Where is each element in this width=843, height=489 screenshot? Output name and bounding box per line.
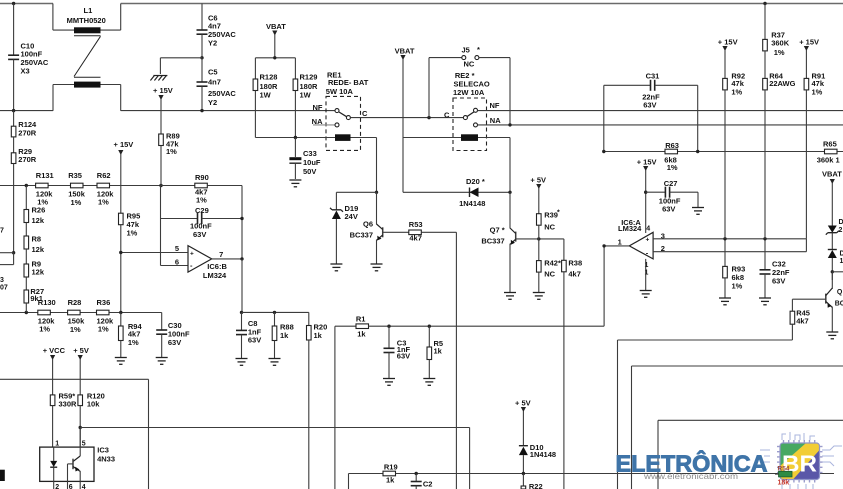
svg-text:+ 15V: + 15V	[153, 86, 173, 95]
svg-text:R42*: R42*	[544, 258, 561, 267]
svg-text:R26: R26	[32, 206, 46, 215]
capacitor C3 1nF 63V	[388, 326, 390, 348]
svg-text:NC: NC	[544, 223, 555, 232]
svg-text:+ 5V: + 5V	[530, 176, 546, 185]
node - output junction	[240, 257, 243, 260]
svg-text:50V: 50V	[303, 167, 316, 176]
svg-text:R128: R128	[260, 73, 278, 82]
ground - IC6:A pin11	[640, 290, 652, 292]
svg-text:1N4148: 1N4148	[530, 450, 556, 459]
resistor R92 47k 1%	[723, 78, 728, 90]
svg-text:270R: 270R	[18, 128, 37, 137]
svg-text:NF: NF	[490, 101, 500, 110]
svg-text:R129: R129	[300, 73, 318, 82]
svg-text:J5: J5	[462, 45, 470, 54]
wire - NF line right	[478, 110, 843, 112]
node - C32 top junction	[763, 237, 766, 240]
svg-text:1%: 1%	[731, 88, 742, 97]
resistor R9 12k	[25, 249, 27, 264]
diode D10 1N4148	[519, 445, 528, 447]
wire - C8 node to R20	[242, 311, 309, 313]
capacitor C27 100nF 63V	[646, 191, 666, 193]
svg-text:+ 5V: + 5V	[515, 398, 531, 407]
optocoupler transistor	[79, 428, 81, 457]
wire - R63 feedback line	[604, 151, 843, 153]
wire - main NF line left	[0, 110, 53, 112]
relay RE2 NA contact	[474, 123, 478, 127]
ground - under C3	[383, 378, 395, 380]
wire - R19 line vertical	[348, 474, 350, 489]
ground - under right transistor	[826, 331, 838, 333]
capacitor C32 22nF 63V	[764, 239, 766, 270]
svg-text:+ VCC: + VCC	[43, 346, 66, 355]
svg-text:C27: C27	[664, 179, 678, 188]
svg-text:1: 1	[840, 258, 843, 265]
ground - under D19	[330, 263, 342, 265]
logo chip pins	[777, 440, 823, 483]
svg-text:1%: 1%	[128, 338, 139, 347]
wire - IC6:A output pin1	[604, 245, 629, 247]
svg-text:1N4148: 1N4148	[459, 199, 485, 208]
svg-text:5: 5	[175, 244, 179, 253]
wire - D19 top wire	[336, 191, 376, 193]
diode D19 zener 24V	[335, 192, 337, 210]
node - C27 junction	[644, 191, 647, 194]
svg-text:1%: 1%	[127, 229, 138, 238]
capacitor C8 1nF 63V	[241, 312, 243, 330]
resistor R89 47k 1%	[159, 134, 164, 146]
svg-text:3: 3	[0, 277, 4, 284]
svg-text:C: C	[444, 110, 450, 119]
svg-text:+ 15V: + 15V	[637, 157, 657, 166]
svg-text:VBAT: VBAT	[395, 46, 415, 55]
svg-text:+ 15V: + 15V	[718, 38, 738, 47]
ground - under C8	[236, 358, 248, 360]
resistor R5 1k	[428, 326, 430, 347]
svg-text:63V: 63V	[397, 352, 410, 361]
resistor R93 6k8 1%	[724, 239, 726, 267]
node - R89/R90 junction	[159, 184, 162, 187]
resistor R27 9k1	[25, 277, 27, 290]
svg-text:C: C	[362, 109, 368, 118]
diode D2x 1N4148 (cut at edge)	[828, 249, 837, 251]
wire - IC6:B output pin7	[212, 258, 242, 260]
svg-text:1k: 1k	[386, 476, 395, 485]
wire - R20 bottom long vertical	[308, 340, 310, 489]
svg-text:4n7: 4n7	[208, 78, 221, 87]
wire - Q6 base to R53	[383, 231, 409, 233]
node - junction C10 top	[12, 2, 15, 5]
svg-text:1k: 1k	[357, 329, 366, 338]
wire - Q7 base wire	[516, 238, 564, 240]
svg-text:2: 2	[55, 484, 59, 489]
svg-text:1%: 1%	[812, 88, 823, 97]
node - C2 junction	[415, 472, 418, 475]
resistor R20 1k	[308, 312, 310, 325]
wire - pin2 input	[653, 251, 806, 253]
relay RE2 NF contact	[474, 108, 478, 112]
wire - VBAT to RE2 coil left	[402, 138, 404, 193]
resistor R19 1k	[349, 473, 384, 475]
resistor R28 150k 1%	[68, 310, 81, 315]
wire - top AC line left segment	[0, 3, 53, 5]
svg-text:+: +	[646, 236, 650, 243]
svg-text:24V: 24V	[345, 212, 358, 221]
ground - under Q7	[504, 292, 516, 294]
svg-text:1: 1	[618, 237, 622, 246]
resistor R131 120k 1%	[36, 183, 49, 188]
svg-text:1W: 1W	[300, 91, 312, 100]
svg-text:1: 1	[645, 270, 649, 277]
node - R129/coil junction	[294, 136, 297, 139]
svg-text:10k: 10k	[87, 399, 100, 408]
node - R5 junction	[428, 325, 431, 328]
svg-text:7: 7	[0, 228, 4, 235]
svg-text:R53: R53	[409, 220, 423, 229]
resistor R90 4k7 1% feedback	[161, 185, 195, 187]
svg-text:+ 15V: + 15V	[799, 38, 819, 47]
svg-text:R22: R22	[529, 482, 543, 489]
svg-text:4k7: 4k7	[409, 234, 422, 243]
wire - R53 down to R1 line	[455, 232, 457, 489]
resistor R38 4k7	[563, 239, 565, 260]
svg-text:*: *	[557, 209, 560, 216]
svg-text:C2: C2	[423, 479, 433, 488]
svg-text:R131: R131	[36, 171, 54, 180]
svg-text:1: 1	[645, 262, 649, 269]
svg-text:07: 07	[0, 284, 8, 291]
svg-text:C5: C5	[208, 67, 218, 76]
svg-text:R19: R19	[384, 462, 398, 471]
wire - pin3 input	[653, 238, 806, 240]
relay RE1 coil	[335, 134, 351, 141]
resistor R22	[522, 474, 524, 487]
resistor R64 22AWG	[764, 51, 766, 79]
svg-text:1%: 1%	[732, 282, 743, 291]
svg-text:360k 1: 360k 1	[817, 155, 840, 164]
svg-text:R38: R38	[568, 258, 582, 267]
resistor R8 12k	[25, 223, 27, 237]
resistor R62 120k 1%	[97, 183, 110, 188]
resistor R94 4k7 1%	[120, 313, 122, 327]
node - R120/wire junction	[79, 426, 82, 429]
svg-text:R39: R39	[544, 210, 558, 219]
wire - C5/C6 midpoint to chassis ground	[160, 57, 202, 59]
svg-text:22AWG: 22AWG	[769, 79, 795, 88]
node - D20/Q7 junction	[508, 191, 511, 194]
optocoupler base lead	[68, 463, 74, 465]
op-amp IC6:B LM324	[188, 246, 212, 273]
ground - under C33	[289, 179, 301, 181]
svg-text:4: 4	[82, 484, 86, 489]
capacitor C29 100nF 63V feedback	[160, 186, 162, 219]
svg-text:NC: NC	[464, 60, 475, 69]
logo BR chip square	[780, 443, 820, 480]
svg-text:Y2: Y2	[208, 38, 217, 47]
svg-text:R54: R54	[778, 466, 790, 473]
wire - R1 net up to IC6:A output	[603, 246, 605, 326]
ground - under Q6	[371, 263, 383, 265]
svg-text:VBAT: VBAT	[822, 170, 842, 179]
capacitor C2	[415, 474, 417, 482]
svg-text:6: 6	[69, 484, 73, 489]
wire - stub to left edge lower	[13, 253, 15, 265]
wire - R120 line corner down	[469, 428, 471, 489]
svg-text:LM324: LM324	[618, 224, 642, 233]
node - C10 bottom junction	[12, 109, 15, 112]
svg-text:www.eletronicabr.com: www.eletronicabr.com	[643, 471, 738, 481]
svg-text:D: D	[840, 251, 843, 258]
node - C/J5 junction	[427, 116, 430, 119]
node - R26 top junction	[25, 184, 28, 187]
node - R94 top junction	[119, 311, 122, 314]
logo resistor graphic	[779, 471, 793, 477]
node - D10/R22 junction	[522, 472, 525, 475]
svg-text:9k1: 9k1	[30, 294, 43, 303]
svg-text:IC3: IC3	[97, 446, 109, 455]
relay RE2 switch arm	[467, 112, 474, 117]
relay RE2 dashed box	[453, 98, 487, 151]
svg-text:Q6: Q6	[363, 220, 373, 229]
wire - stub to left edge upper	[0, 252, 14, 254]
resistor R29 270R	[13, 137, 15, 153]
resistor R130 120k 1%	[38, 310, 51, 315]
wire - RE1 common C to RE2	[350, 117, 463, 119]
node - C3 junction	[387, 325, 390, 328]
svg-text:Q7 *: Q7 *	[490, 226, 505, 235]
resistor R45 4k7	[791, 299, 793, 311]
svg-text:Y2: Y2	[208, 98, 217, 107]
wire - lower ladder	[0, 312, 162, 314]
resistor R91 47k 1%	[804, 78, 809, 90]
svg-text:63V: 63V	[168, 338, 181, 347]
ground - under C27	[692, 207, 704, 209]
svg-text:1%: 1%	[98, 324, 109, 333]
node - junction R37 top	[763, 2, 766, 5]
svg-text:1%: 1%	[196, 196, 207, 205]
svg-text:NA: NA	[490, 116, 501, 125]
svg-text:250VAC: 250VAC	[208, 89, 236, 98]
connector fragment at left edge	[0, 470, 5, 481]
svg-text:R90: R90	[195, 173, 209, 182]
node - R95/pin5 junction	[119, 251, 122, 254]
resistor R36 120k 1%	[97, 310, 110, 315]
svg-text:NC: NC	[544, 269, 555, 278]
svg-text:1%: 1%	[774, 48, 785, 57]
wire - VBAT to R128/R129 top	[255, 57, 295, 59]
resistor R63 6k8 1%	[665, 149, 678, 154]
svg-text:63V: 63V	[248, 336, 261, 345]
svg-text:1%: 1%	[71, 198, 82, 207]
svg-text:BC337: BC337	[350, 231, 373, 240]
svg-text:R62: R62	[97, 171, 111, 180]
node - C29 right junction	[240, 217, 243, 220]
wire - output down to C8 node	[241, 259, 243, 313]
svg-text:*: *	[477, 45, 480, 54]
svg-text:R28: R28	[68, 298, 82, 307]
svg-text:C29: C29	[195, 206, 209, 215]
svg-text:D20 *: D20 *	[466, 177, 485, 186]
optocoupler LED	[53, 447, 55, 461]
svg-text:12k: 12k	[32, 268, 45, 277]
wire - NA line right	[478, 124, 843, 126]
svg-text:6: 6	[175, 257, 179, 266]
svg-text:12k: 12k	[32, 245, 45, 254]
svg-text:MMTH0520: MMTH0520	[67, 16, 106, 25]
wire - box line 3	[658, 419, 843, 421]
node - output junction on feedback column	[602, 244, 605, 247]
wire - R38 bottom long vertical	[563, 272, 565, 489]
wire - base wire to R45	[792, 298, 825, 300]
relay RE2 coil	[461, 134, 478, 141]
svg-text:R8: R8	[32, 235, 42, 244]
node - VBAT junction	[273, 56, 276, 59]
wire - stub to right edge	[832, 271, 843, 273]
svg-text:4N33: 4N33	[97, 455, 115, 464]
ground - under R42	[533, 292, 545, 294]
svg-text:1%: 1%	[98, 197, 109, 206]
wire - pin11 to ground	[645, 259, 647, 290]
wire - feedback right vertical	[241, 186, 243, 259]
svg-text:R1: R1	[356, 315, 366, 324]
svg-text:360K: 360K	[771, 38, 790, 47]
svg-text:100nF: 100nF	[21, 50, 43, 59]
capacitor C30 100nF 63V	[161, 313, 163, 331]
resistor R59 330R	[50, 395, 55, 406]
inductor L1 MMTH0520 common-mode choke	[52, 4, 54, 31]
node - C5 bottom junction	[200, 109, 203, 112]
svg-text:REDE- BAT: REDE- BAT	[328, 78, 369, 87]
svg-text:330R: 330R	[59, 399, 78, 408]
resistor R88 1k	[274, 312, 276, 326]
svg-text:1W: 1W	[260, 91, 272, 100]
svg-text:18k: 18k	[778, 480, 790, 487]
ground - under C30	[156, 357, 168, 359]
node - R88 junction	[273, 311, 276, 314]
svg-text:NF: NF	[313, 103, 323, 112]
svg-text:R35: R35	[68, 171, 82, 180]
resistor R129	[294, 58, 296, 79]
svg-text:180R: 180R	[260, 82, 279, 91]
svg-text:270R: 270R	[18, 155, 37, 164]
resistor R35 150k 1%	[71, 183, 84, 188]
resistor R120 10k	[78, 395, 83, 406]
node - C8 junction	[240, 311, 243, 314]
svg-text:D: D	[839, 219, 843, 226]
capacitor C6	[201, 4, 203, 31]
capacitor C5	[201, 58, 203, 82]
resistor R124 270R	[13, 111, 15, 127]
node - R63 left junction	[602, 150, 605, 153]
node - R27 bottom junction	[25, 311, 28, 314]
IC3 bottom pin stubs	[53, 481, 55, 489]
wire - RE1 coil right to Q6 collector	[351, 137, 377, 139]
node - R63 right junction	[696, 150, 699, 153]
svg-text:4k7: 4k7	[568, 269, 581, 278]
svg-text:1%: 1%	[39, 324, 50, 333]
svg-text:180R: 180R	[300, 82, 319, 91]
svg-text:1%: 1%	[70, 325, 81, 334]
capacitor C10	[13, 4, 15, 56]
svg-text:1k: 1k	[434, 347, 443, 356]
wire - top AC line right segment	[121, 3, 843, 5]
svg-text:+: +	[190, 250, 194, 257]
svg-text:63V: 63V	[193, 230, 206, 239]
wire - R91 column corner to pin2	[805, 239, 807, 252]
node - left branch junction	[12, 251, 15, 254]
node - D19 wire junction	[375, 191, 378, 194]
ground - under R94	[115, 357, 127, 359]
svg-text:2: 2	[839, 227, 843, 234]
node - collector junction right edge	[831, 270, 834, 273]
svg-text:C31: C31	[646, 72, 660, 81]
svg-text:63V: 63V	[662, 204, 675, 213]
ground - chassis ground near L1	[153, 75, 167, 77]
svg-text:BC337: BC337	[481, 237, 504, 246]
node - R93 top junction	[723, 237, 726, 240]
ground - under C32	[759, 297, 771, 299]
relay RE1 dashed box	[326, 96, 361, 150]
svg-text:+ 15V: + 15V	[114, 140, 134, 149]
svg-text:R36: R36	[97, 298, 111, 307]
capacitor C31 22nF 63V	[603, 85, 605, 151]
resistor R95 47k 1%	[119, 213, 124, 225]
svg-text:12k: 12k	[32, 216, 45, 225]
svg-text:LM324: LM324	[203, 271, 227, 280]
svg-text:1%: 1%	[166, 147, 177, 156]
svg-text:L1: L1	[84, 6, 93, 15]
wire - R1 net vertical left	[334, 326, 336, 489]
wire - bottom-left box outline	[0, 378, 149, 380]
resistor R65 360k 1%	[825, 149, 838, 154]
ground - under R93	[719, 297, 731, 299]
svg-text:+ 5V: + 5V	[73, 346, 89, 355]
svg-text:1%: 1%	[667, 163, 678, 172]
svg-text:63V: 63V	[772, 277, 785, 286]
wire - pin5 from R95 divider	[121, 252, 188, 254]
svg-text:R63: R63	[665, 141, 679, 150]
svg-text:63V: 63V	[643, 100, 656, 109]
svg-text:5W 10A: 5W 10A	[326, 87, 354, 96]
svg-text:4: 4	[646, 226, 650, 233]
wire - R120 node to the right	[80, 427, 469, 429]
ground - under R88	[269, 358, 281, 360]
diode zener D2x (cut at edge)	[828, 226, 837, 233]
relay RE1 switch arm	[339, 112, 348, 118]
resistor R42 NC	[537, 261, 542, 273]
wire - box line 2	[632, 365, 843, 367]
svg-text:12W 10A: 12W 10A	[453, 88, 485, 97]
logo circuit doodles	[760, 432, 842, 489]
wire - R45 return line	[618, 339, 793, 341]
svg-text:X3: X3	[21, 67, 30, 76]
wire - RE2 coil right to Q7 collector	[478, 137, 510, 139]
resistor R1 1k	[335, 325, 356, 327]
node - R39/R42 junction	[537, 237, 540, 240]
svg-text:C33: C33	[303, 149, 317, 158]
resistor R39 NC	[537, 214, 542, 226]
svg-text:4k7: 4k7	[796, 317, 809, 326]
svg-text:Q: Q	[837, 289, 843, 296]
svg-text:10uF: 10uF	[303, 158, 321, 167]
svg-text:1k: 1k	[280, 331, 289, 340]
wire - C29 left down to pin6	[160, 219, 162, 266]
resistor ladder chain R26 12k	[25, 186, 27, 210]
svg-text:7: 7	[219, 250, 223, 259]
svg-text:BC: BC	[835, 301, 843, 308]
node - NA/J5 junction	[508, 123, 511, 126]
wire - upper ladder	[0, 185, 242, 187]
